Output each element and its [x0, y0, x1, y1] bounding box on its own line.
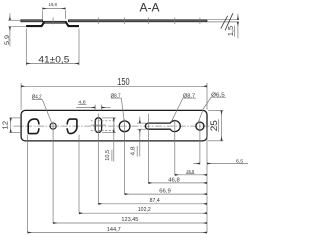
svg-text:19,8: 19,8 [48, 2, 57, 8]
dimension 19,8 (section tab width) [42, 9, 65, 19]
dimension 26,8 [175, 174, 207, 176]
hole Ø4,2 [50, 123, 56, 129]
section centerline ticks at hole positions [53, 17, 200, 24]
plate outline (plan view) [21, 110, 207, 140]
bridge cutout right C [67, 119, 77, 134]
svg-text:5,9: 5,9 [4, 35, 11, 45]
svg-text:10,5: 10,5 [105, 150, 111, 161]
dimension 5,9 (section offset height) [8, 13, 26, 46]
svg-text:25: 25 [209, 120, 219, 131]
keyhole slot with Ø8,7 end [145, 121, 180, 132]
section main strip (cut bar) [21, 20, 43, 22]
svg-text:102,2: 102,2 [138, 207, 151, 213]
dimension 87,4 [98, 203, 207, 205]
dimension 102,2 [79, 212, 207, 214]
dimension 41±0,5 (bridge width) [26, 29, 79, 66]
hole Ø8,7 (first) [119, 121, 130, 132]
svg-text:4,8: 4,8 [131, 146, 137, 155]
svg-text:A-A: A-A [139, 1, 159, 15]
svg-text:144,7: 144,7 [107, 227, 121, 233]
bridge cutout left C [28, 119, 39, 134]
dimension 10,5 (slot height, rotated text) [102, 118, 116, 162]
svg-text:87,4: 87,4 [150, 198, 160, 204]
hidden (dashed) recess rectangle [91, 120, 114, 130]
vertical slot 4,8 x 10,5 [95, 118, 101, 133]
svg-text:150: 150 [117, 77, 130, 88]
svg-text:66,9: 66,9 [159, 188, 171, 194]
dimension 150 (overall length) [21, 83, 207, 110]
dimension 1,5 (strip thickness) [207, 14, 239, 39]
svg-text:26,8: 26,8 [186, 169, 194, 174]
svg-text:6,5: 6,5 [236, 158, 244, 164]
dimension 144,7 [28, 232, 208, 234]
dimension 66,9 [125, 193, 207, 195]
dimension 25 (plate width) [208, 111, 223, 141]
dimension 6,5 [193, 163, 248, 165]
svg-text:12: 12 [0, 121, 9, 130]
svg-text:46,8: 46,8 [168, 177, 180, 183]
section bridge lower profile [26, 22, 44, 26]
dimension 123,45 [53, 222, 207, 224]
dimension 46,8 [148, 182, 207, 184]
dimension 4,8 (keyhole slot width, rotated text) [137, 117, 146, 157]
dimension 12 (cutout height) [9, 118, 21, 133]
plate horizontal centerline [14, 125, 216, 127]
section raised tab middle bar [44, 21, 67, 23]
svg-text:41±0,5: 41±0,5 [38, 55, 69, 65]
svg-text:123,45: 123,45 [121, 217, 138, 223]
lower extension lines from features [28, 114, 208, 233]
hole Ø6,5 [196, 122, 204, 130]
